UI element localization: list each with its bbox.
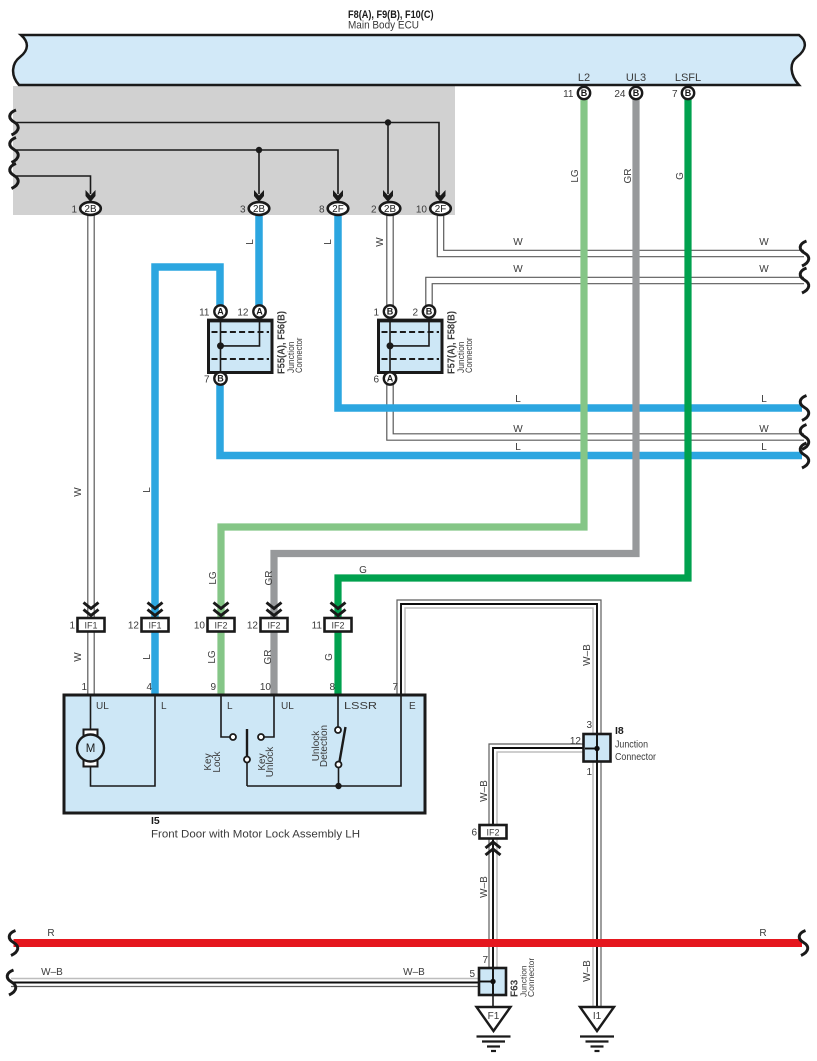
svg-text:W–B: W–B [479, 876, 490, 898]
svg-text:GR: GR [264, 571, 275, 586]
svg-text:B: B [685, 88, 692, 98]
svg-text:W–B: W–B [582, 644, 593, 666]
svg-text:L: L [245, 239, 256, 245]
svg-text:7: 7 [392, 682, 398, 693]
svg-text:A: A [387, 374, 394, 384]
svg-text:W: W [73, 487, 84, 497]
svg-text:1: 1 [69, 621, 75, 632]
svg-text:B: B [426, 307, 433, 317]
svg-text:IF1: IF1 [84, 620, 97, 630]
svg-text:Main Body ECU: Main Body ECU [348, 20, 419, 32]
svg-text:11: 11 [312, 621, 323, 632]
svg-text:W: W [759, 424, 769, 435]
svg-text:B: B [581, 88, 588, 98]
svg-text:L: L [227, 701, 233, 712]
svg-text:W–B: W–B [41, 967, 63, 978]
svg-text:7: 7 [204, 375, 210, 386]
svg-text:8: 8 [319, 205, 325, 216]
svg-text:GR: GR [623, 169, 634, 184]
svg-text:M: M [86, 743, 96, 755]
svg-text:8: 8 [329, 682, 335, 693]
svg-text:UL: UL [96, 701, 109, 712]
svg-text:1: 1 [81, 682, 87, 693]
svg-text:G: G [324, 653, 335, 661]
svg-text:W: W [513, 424, 523, 435]
svg-text:W: W [73, 652, 84, 662]
svg-text:GR: GR [263, 650, 274, 665]
svg-text:10: 10 [416, 205, 428, 216]
svg-text:LG: LG [570, 169, 581, 183]
svg-text:12: 12 [128, 621, 140, 632]
svg-text:10: 10 [194, 621, 206, 632]
svg-text:6: 6 [471, 828, 477, 839]
svg-text:G: G [675, 172, 686, 180]
svg-text:11: 11 [199, 308, 210, 319]
svg-text:Detection: Detection [319, 725, 330, 767]
svg-text:4: 4 [146, 682, 152, 693]
svg-text:L: L [323, 239, 334, 245]
svg-text:R: R [47, 928, 54, 939]
svg-text:Lock: Lock [212, 750, 223, 772]
svg-text:W: W [513, 237, 523, 248]
svg-text:W: W [759, 264, 769, 275]
svg-text:R: R [759, 928, 766, 939]
svg-text:Connector: Connector [526, 958, 536, 997]
svg-text:L2: L2 [578, 72, 590, 84]
svg-text:F1: F1 [488, 1011, 500, 1022]
svg-text:1: 1 [373, 308, 379, 319]
svg-text:W: W [375, 237, 386, 247]
svg-text:2F: 2F [332, 204, 343, 215]
svg-text:L: L [761, 442, 767, 453]
svg-text:I1: I1 [593, 1011, 602, 1022]
svg-text:I5: I5 [151, 815, 160, 827]
svg-text:E: E [409, 701, 416, 712]
svg-text:Connector: Connector [294, 338, 304, 374]
svg-text:6: 6 [373, 375, 379, 386]
svg-text:11: 11 [563, 89, 574, 100]
svg-text:3: 3 [586, 720, 592, 731]
svg-text:Connector: Connector [615, 751, 656, 763]
svg-text:Front Door with Motor Lock Ass: Front Door with Motor Lock Assembly LH [151, 829, 360, 841]
svg-text:L: L [142, 654, 153, 660]
svg-text:W: W [513, 264, 523, 275]
svg-text:2: 2 [412, 308, 418, 319]
svg-text:UL3: UL3 [626, 72, 646, 84]
svg-text:2: 2 [371, 205, 377, 216]
svg-text:IF2: IF2 [214, 620, 227, 630]
svg-text:L: L [161, 701, 167, 712]
svg-text:7: 7 [482, 955, 488, 966]
svg-text:IF2: IF2 [267, 620, 280, 630]
svg-text:IF2: IF2 [486, 827, 499, 837]
svg-text:B: B [387, 307, 394, 317]
svg-text:L: L [142, 487, 153, 493]
svg-text:LSFL: LSFL [675, 72, 701, 84]
svg-text:7: 7 [672, 89, 678, 100]
svg-text:2B: 2B [253, 204, 265, 215]
svg-text:5: 5 [469, 969, 475, 980]
svg-text:2B: 2B [384, 204, 396, 215]
svg-text:Junction: Junction [615, 739, 648, 751]
svg-text:I8: I8 [615, 725, 624, 737]
svg-text:2F: 2F [435, 204, 446, 215]
svg-text:2B: 2B [85, 204, 97, 215]
svg-text:Connector: Connector [464, 338, 474, 374]
svg-text:W–B: W–B [582, 960, 593, 982]
svg-text:12: 12 [247, 621, 259, 632]
svg-text:L: L [515, 394, 521, 405]
svg-text:UL: UL [281, 701, 294, 712]
svg-text:L: L [515, 442, 521, 453]
svg-text:1: 1 [586, 767, 592, 778]
svg-text:L: L [761, 394, 767, 405]
svg-text:9: 9 [210, 682, 216, 693]
svg-text:LG: LG [207, 650, 218, 664]
svg-text:W: W [759, 237, 769, 248]
svg-text:A: A [256, 307, 263, 317]
svg-text:10: 10 [260, 682, 272, 693]
svg-text:A: A [217, 307, 224, 317]
svg-text:LSSR: LSSR [344, 701, 377, 712]
svg-text:B: B [633, 88, 640, 98]
svg-text:IF2: IF2 [331, 620, 344, 630]
svg-text:IF1: IF1 [148, 620, 161, 630]
svg-text:12: 12 [237, 308, 249, 319]
svg-text:Unlock: Unlock [265, 746, 276, 778]
svg-text:W–B: W–B [403, 967, 425, 978]
svg-text:24: 24 [614, 89, 626, 100]
svg-text:LG: LG [208, 571, 219, 585]
svg-text:B: B [217, 374, 224, 384]
svg-text:12: 12 [570, 736, 582, 747]
svg-text:1: 1 [71, 205, 77, 216]
svg-text:W–B: W–B [479, 780, 490, 802]
svg-text:G: G [359, 565, 367, 576]
svg-text:3: 3 [240, 205, 246, 216]
